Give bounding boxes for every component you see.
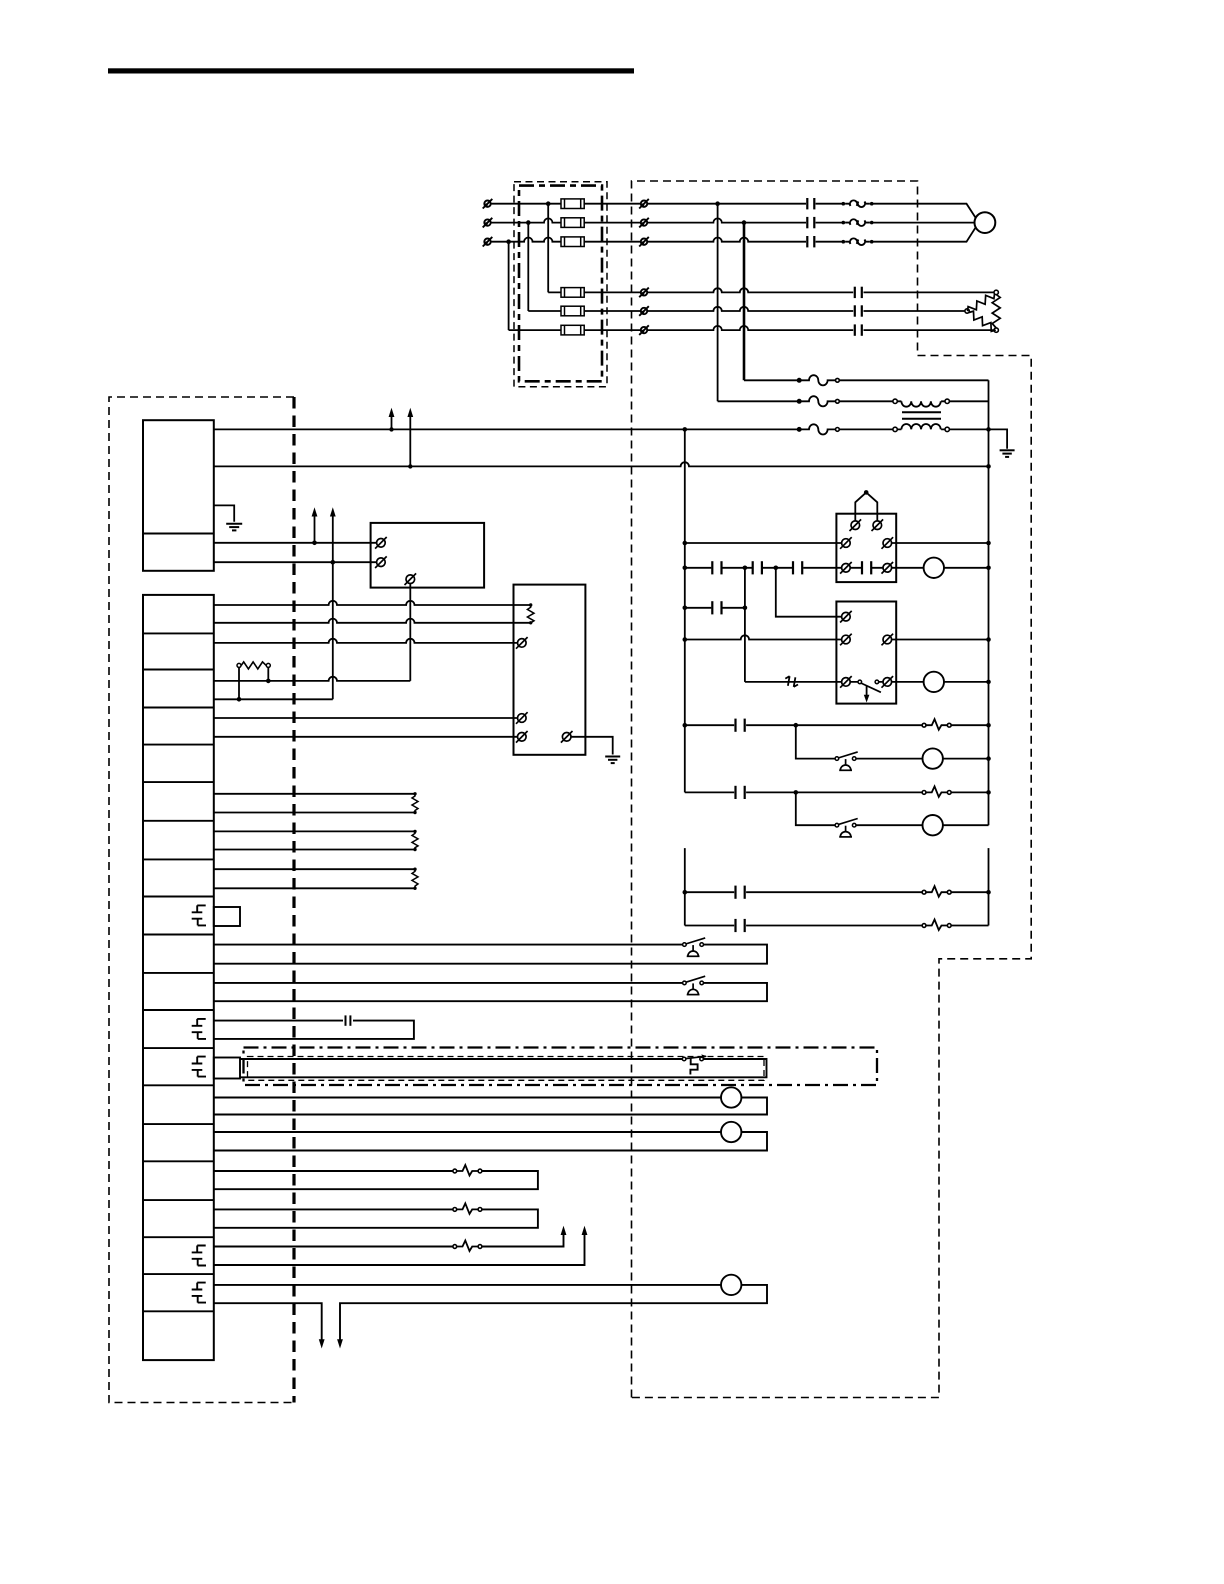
arrow up out b (582, 1226, 588, 1235)
relay A terminal 3 (840, 537, 852, 549)
node junction L2 tap (526, 220, 531, 225)
wire TB2 row3 lower (214, 698, 333, 700)
enclosure: left cabinet dashed box (109, 397, 294, 1403)
relay B terminal 2 (840, 634, 852, 646)
wire tap drop V1 (547, 204, 549, 293)
relay A terminal 2 (872, 519, 884, 531)
overload contact rung 7 (922, 786, 951, 797)
overload loop 2 (214, 1209, 538, 1227)
fuse F4 (561, 288, 584, 298)
wire TB2 row4 to box2 a (214, 717, 522, 719)
fuse wavy FU1 (797, 375, 839, 385)
wire neutral W4 (214, 462, 989, 466)
transformer T1 core (902, 412, 941, 419)
box1 terminal 1 (375, 537, 387, 549)
wire phase L1 (492, 204, 976, 218)
wire rung 4 (685, 635, 989, 639)
wire TB2 row1 to box2 a (214, 601, 531, 605)
overload heater OL1 phase 2 (842, 219, 874, 226)
node junction rung7 (794, 790, 799, 795)
relay A terminal 1 (850, 519, 862, 531)
wire ladder right rail lower (988, 848, 990, 925)
relay B internal switch (850, 680, 882, 702)
contactor contact M1 phase 2 (807, 217, 814, 228)
overload heater OL1 phase 1 (842, 200, 874, 207)
overload contact rung 8 (922, 886, 951, 897)
fuse F1 (561, 199, 584, 209)
overload contact loop 1 (453, 1165, 482, 1176)
arrow up sheet ref 2 (407, 408, 413, 469)
shield step symbol row 5 (192, 1283, 206, 1303)
hairpin resistor loop 3 (214, 868, 418, 891)
resistor R B-C (967, 309, 998, 333)
node junction L3 tap (506, 239, 511, 244)
pilot lamp rung 5 (924, 672, 944, 692)
wire pilot branch 7 (796, 792, 989, 825)
terminal controller input 3 (639, 237, 649, 247)
lamp loop 3 (214, 1285, 767, 1340)
terminal line input 2 (483, 218, 493, 228)
shield step symbol row 1 (192, 905, 206, 925)
arrow up ref 4 (330, 507, 336, 562)
terminal strip TB1 divider (143, 533, 214, 535)
lamp L1 (721, 1087, 741, 1107)
box2 terminal 4 (561, 731, 573, 743)
wire phase L2 (492, 218, 975, 222)
pressure switch interlock 1 (683, 938, 706, 956)
wire rung 1 (685, 542, 989, 544)
wire rung 6 (685, 724, 989, 726)
lamp L3 (721, 1275, 741, 1295)
wire ladder left rail (684, 429, 686, 792)
breaker symbol rung 5 (785, 676, 798, 687)
wire remote out b (214, 1235, 585, 1266)
overload contact rung 9 (922, 920, 951, 931)
wire box1 sensor drop (409, 584, 411, 681)
box1 terminal 2 (375, 556, 387, 568)
overload contact loop 2 (453, 1203, 482, 1214)
lamp L2 (721, 1122, 741, 1142)
arrow up ref 3 (312, 507, 318, 543)
node rail dots right (986, 541, 991, 895)
enclosure: controller dashed boundary polygon (632, 181, 1032, 1398)
wire tap drop V3 (508, 242, 510, 330)
wire secondary W3 (214, 429, 1007, 448)
contactor contact M2 phase 3 (855, 324, 862, 335)
wire TB2 row2 to box2 (214, 639, 522, 643)
relay A internal contact (850, 561, 882, 574)
contactor contact M2 phase 1 (855, 287, 862, 298)
node junction rung2 b (774, 566, 779, 571)
terminal controller input 2 (639, 218, 649, 228)
enclosure: fuse block inner heavy dash-dot box (519, 186, 602, 382)
box2 terminal 2 (516, 712, 528, 724)
wire seal-in drop (744, 568, 746, 682)
remote switch loop (240, 1059, 767, 1077)
shield step symbol row 3 (192, 1057, 206, 1077)
relay coil box B (836, 602, 896, 704)
wire TB2 row3 upper (214, 677, 410, 681)
wire control feed W2 (718, 400, 989, 402)
wire control tap drop VA (717, 204, 719, 402)
wire remote out a (214, 1235, 564, 1247)
contact aux 7 (736, 786, 745, 799)
wire feeder L6 (509, 326, 997, 330)
relay B terminal 1 (840, 611, 852, 623)
wire TB1 to box1 lower (214, 561, 381, 563)
box1 terminal 3 (405, 573, 417, 585)
node junction W3 rail (683, 427, 688, 432)
capacitor C1 (346, 1015, 351, 1025)
terminal controller input 5 (639, 306, 649, 316)
arrow up sheet ref 1 (389, 408, 395, 432)
contact aux 2a (712, 561, 721, 574)
wire rung 9 (685, 925, 989, 927)
wire ladder left rail lower (684, 848, 686, 925)
terminal strip TB2 dividers (143, 633, 214, 1311)
wire branch to relay B (776, 568, 846, 617)
wire tap drop V2 (527, 223, 529, 311)
spare terminal tab 1 (214, 907, 240, 926)
box2 terminal 3 (516, 731, 528, 743)
wire rung 5 (745, 681, 989, 683)
contact aux 6 (736, 719, 745, 732)
contact aux 2c (793, 561, 802, 574)
overload contact out a (453, 1241, 482, 1252)
node junction W4 right (986, 464, 991, 469)
terminal controller input 6 (639, 325, 649, 335)
wire pilot branch 6 (796, 725, 989, 758)
wire TB2 row4 to box2 b (214, 736, 522, 738)
node junction rung6 (794, 723, 799, 728)
contactor contact M2 phase 2 (855, 305, 862, 316)
wire remote out d (214, 1303, 322, 1339)
contact aux 3 (712, 601, 721, 614)
terminal line input 3 (483, 237, 493, 247)
wire TB2 row1 to box2 b (214, 619, 531, 623)
relay A terminal 5 (840, 562, 852, 574)
pressure switch branch 7 (835, 819, 858, 837)
relay A jumper tent (855, 490, 877, 521)
transformer T1 primary coil (893, 399, 950, 407)
contactor contact M1 phase 1 (807, 198, 814, 209)
terminal strip TB2 body (143, 595, 214, 1360)
relay B terminal 5 (882, 676, 894, 688)
arrow down out d (319, 1339, 325, 1348)
transformer T1 secondary coil (893, 424, 950, 432)
ground TB1 (214, 505, 242, 530)
relay A terminal 6 (882, 562, 894, 574)
node junction L1 tap (546, 201, 551, 206)
ground box2 (571, 737, 620, 763)
enclosure: remote option inner dashed box (248, 1057, 765, 1081)
interlock loop 2 (214, 983, 767, 1001)
capacitor loop (214, 1021, 414, 1039)
lamp loop 2 (214, 1132, 767, 1151)
shield step symbol row 2 (192, 1019, 206, 1039)
terminal line input 1 (483, 199, 493, 209)
node junction W3 right (986, 427, 991, 432)
fuse wavy FU3 (797, 424, 839, 434)
enclosure: left cabinet heavy dashed right edge (292, 397, 295, 1403)
enclosure: remote option dash-dot box (244, 1048, 878, 1086)
box2 internal resistor (527, 603, 534, 624)
wire rung 3 (685, 607, 745, 609)
interlock loop 1 (214, 945, 767, 964)
fuse F2 (561, 218, 584, 228)
flow switch remote (682, 1054, 707, 1074)
overload loop 1 (214, 1171, 538, 1189)
pilot lamp branch 7 (923, 815, 943, 835)
node rail dots left (683, 541, 688, 895)
arrow down out c (337, 1339, 343, 1348)
contact aux 2b (753, 561, 762, 574)
spare terminal tab 2 (214, 1058, 240, 1079)
contact aux 9 (736, 919, 745, 932)
resistor bank node B (965, 309, 969, 313)
pilot lamp branch 6 (923, 748, 943, 768)
wire feeder L4 (548, 288, 996, 292)
title underline bar (108, 68, 634, 73)
contactor contact M1 phase 3 (807, 236, 814, 247)
motor M (975, 212, 996, 233)
lamp loop 1 (214, 1098, 767, 1115)
pilot lamp rung 2 (924, 558, 944, 578)
fuse F6 (561, 325, 584, 335)
node junction rung2 a (743, 566, 748, 571)
wire TB1 to box1 upper (214, 542, 381, 544)
terminal controller input 4 (639, 288, 649, 298)
box2 terminal 1 (516, 637, 528, 649)
node junction rung3 (743, 606, 748, 611)
arrow up out a (561, 1226, 567, 1235)
wire control tap drop VB (743, 223, 746, 381)
wire control feed W1 (744, 379, 989, 381)
resistor bank node C (994, 328, 998, 332)
node junction VA on L1 (715, 201, 720, 206)
pressure switch interlock 2 (683, 976, 706, 994)
wire phase L3 (492, 227, 976, 241)
relay B terminal 3 (882, 634, 894, 646)
wire rung 7 (685, 791, 989, 793)
node junction shunt right (266, 679, 271, 684)
overload heater OL1 phase 3 (842, 238, 874, 245)
hairpin resistor loop 2 (214, 830, 418, 852)
fuse wavy FU2 (797, 396, 839, 406)
wire rung 8 (685, 891, 989, 893)
node junction VB on L2 (742, 220, 747, 225)
relay A terminal 4 (882, 537, 894, 549)
hairpin resistor loop 1 (214, 792, 418, 814)
module box2 (514, 585, 586, 755)
enclosure: fuse block outer dashed box (514, 182, 607, 387)
wire ladder right rail (988, 380, 990, 825)
node junction shunt left (237, 697, 242, 702)
resistor shunt sub-circuit (237, 662, 270, 699)
wire drop from arrow2 vertical (332, 562, 334, 699)
resistor R A-B (966, 291, 997, 314)
resistor bank node A (994, 290, 998, 294)
relay B terminal 4 (840, 676, 852, 688)
contact aux 8 (736, 886, 745, 899)
shield step symbol row 4 (192, 1246, 206, 1266)
fuse F3 (561, 237, 584, 247)
relay coil box A (836, 514, 896, 582)
wire rung 2 (685, 567, 989, 569)
module box1 (371, 523, 485, 588)
pressure switch branch 6 (835, 752, 858, 770)
terminal controller input 1 (639, 199, 649, 209)
ground secondary (1000, 450, 1015, 457)
node junction arrow2 (331, 560, 336, 565)
resistor R A-C (992, 295, 1000, 329)
node junction arrow1 (312, 541, 317, 546)
wire feeder L5 (528, 307, 967, 311)
fuse F5 (561, 306, 584, 316)
overload contact rung 6 (922, 719, 951, 730)
terminal strip TB1 body (143, 420, 214, 571)
